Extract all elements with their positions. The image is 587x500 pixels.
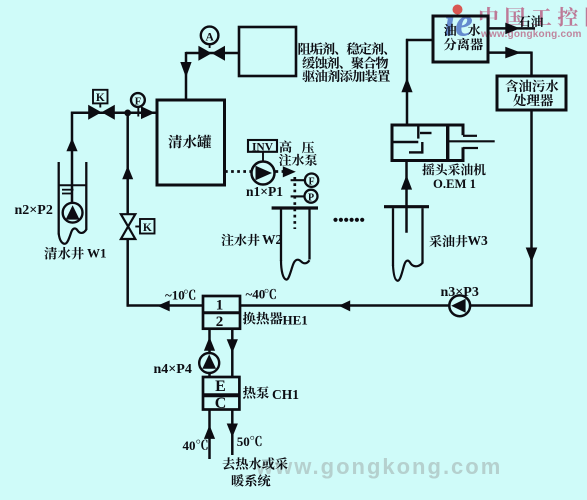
arrow down on CH1 supply	[227, 424, 238, 438]
label 处理器	[513, 94, 553, 107]
label 暖系统	[232, 474, 271, 487]
arrow up on W1 riser	[66, 138, 77, 151]
arrow left toward HE1	[339, 300, 351, 311]
well W1 walls	[58, 162, 60, 235]
pumping unit outer box	[392, 124, 463, 127]
arrow up into HE1	[204, 337, 215, 351]
wire dotted injection drop into W2	[293, 177, 296, 229]
pumping unit internals	[392, 141, 418, 143]
wire separator second outlet	[488, 51, 532, 54]
wire W3 pump rod	[405, 161, 408, 233]
gauge F2	[291, 179, 305, 181]
pump P4	[199, 353, 219, 373]
pump P1	[252, 162, 275, 185]
box 油水分离器	[433, 16, 488, 62]
arrow up into CH1 return	[204, 425, 215, 439]
pumping unit rod fork	[463, 135, 477, 137]
wire HE1-CH1 left leg	[208, 329, 211, 377]
wire well-W1 riser	[71, 112, 74, 203]
arrow down from HE1	[227, 339, 238, 353]
box 含油污水处理器	[497, 76, 566, 110]
wire CH1 return leg	[208, 410, 211, 460]
box HE1	[203, 296, 240, 329]
well W2 walls	[280, 210, 282, 262]
arrow down on dosing drop	[180, 62, 191, 78]
arrow right after pump P1	[283, 166, 296, 177]
label 石油	[518, 15, 543, 27]
well W1 torn bottom	[59, 228, 87, 243]
svg-text:www.gongkong.com: www.gongkong.com	[255, 454, 502, 479]
svg-text:1: 1	[216, 298, 224, 314]
svg-text:2: 2	[216, 314, 224, 330]
instrument box K1	[93, 90, 108, 104]
pumping unit divider	[446, 124, 449, 163]
svg-text:50: 50	[237, 434, 250, 449]
arrow up to separator	[401, 78, 412, 93]
svg-text:n4×P4: n4×P4	[154, 362, 192, 377]
svg-text:~40: ~40	[246, 287, 266, 302]
wire dosing drop into tank	[185, 52, 188, 100]
label 换热器 HE1	[243, 312, 283, 325]
wire HE1-CH1 right leg	[231, 329, 234, 377]
label 注水井 W2	[221, 234, 259, 246]
arrow right second outlet	[505, 47, 521, 59]
svg-text:W3: W3	[468, 233, 489, 248]
label 采油井 W3	[429, 235, 467, 247]
svg-text:P: P	[308, 193, 314, 204]
svg-text:W1: W1	[87, 245, 107, 260]
label additive line1	[298, 42, 387, 54]
label 清水井 W1	[44, 247, 84, 260]
arrow left into bypass corner	[157, 300, 170, 311]
svg-text:W2: W2	[262, 232, 283, 247]
svg-text:F: F	[309, 177, 315, 188]
node junction dot	[124, 110, 131, 117]
svg-text:n1×P1: n1×P1	[246, 184, 283, 199]
pump P2	[63, 203, 83, 223]
well W1 water level	[59, 184, 87, 186]
arrow up on W3 rod	[401, 175, 412, 190]
node ellipsis dots	[333, 218, 337, 222]
label 含油污水	[505, 80, 558, 93]
svg-text:E: E	[215, 378, 226, 395]
svg-text:F: F	[135, 96, 141, 107]
well W3 walls	[392, 208, 394, 266]
wire INV stem	[262, 152, 264, 162]
wire CH1 supply leg	[231, 410, 234, 456]
label 去热水或采	[223, 457, 288, 469]
valve K2 (bypass)	[121, 214, 135, 226]
well W3 torn bottom	[393, 261, 423, 281]
wire bypass vertical lower	[126, 239, 129, 307]
label 分离器	[444, 38, 483, 51]
label 摇头采油机	[422, 163, 485, 175]
gauge A	[201, 27, 219, 45]
svg-text:CH1: CH1	[272, 387, 299, 402]
arrow down on oily-water drop	[526, 248, 538, 263]
svg-text:n2×P2: n2×P2	[15, 203, 53, 218]
wire petroleum outlet	[488, 27, 535, 30]
svg-text:O.EM 1: O.EM 1	[433, 177, 476, 191]
svg-text:C: C	[215, 395, 227, 412]
wire oily-water drop	[530, 109, 533, 307]
wire dosing horizontal	[186, 52, 239, 55]
well W3 flange	[384, 205, 429, 208]
arrow up on bypass	[122, 166, 133, 179]
wire bottom loop right segment	[240, 304, 533, 307]
tank 清水罐	[157, 100, 225, 185]
box CH1	[203, 377, 239, 410]
wire separator riser vertical	[406, 39, 409, 125]
svg-text:INV: INV	[252, 141, 274, 153]
box INV	[248, 140, 277, 152]
svg-text:40: 40	[183, 438, 196, 453]
svg-text:n3×P3: n3×P3	[441, 285, 479, 300]
label 热泵 CH1	[243, 386, 269, 399]
label additive line2	[302, 56, 388, 69]
wire separator riser horizontal	[406, 39, 433, 42]
wire top feed header	[71, 111, 156, 114]
wire dotted tank to pump P1	[225, 170, 251, 173]
wire second outlet drop	[530, 52, 533, 77]
arrow right petroleum	[505, 23, 520, 35]
svg-text:HE1: HE1	[283, 313, 308, 328]
svg-text:A: A	[205, 31, 214, 43]
label additive line3	[302, 70, 390, 82]
wire bottom loop left segment	[127, 304, 203, 307]
gauge P2g	[291, 195, 305, 197]
well W2 flange	[272, 206, 318, 209]
svg-text:K: K	[143, 222, 152, 234]
valve A (dosing)	[198, 46, 211, 61]
instrument box K2	[135, 226, 140, 228]
wire dotted pump P1 outlet	[276, 170, 285, 173]
label 油水	[444, 24, 457, 36]
label 高压	[280, 141, 292, 153]
svg-text:~10: ~10	[165, 287, 185, 302]
wire bypass vertical upper	[126, 113, 129, 215]
well W2 torn bottom	[281, 260, 310, 280]
label 注水泵	[279, 154, 317, 166]
pump P3	[449, 295, 470, 316]
svg-text:K: K	[96, 92, 105, 104]
valve K1 (feed)	[88, 105, 101, 120]
label 清水罐	[168, 135, 211, 149]
svg-text:www.gongkong.com: www.gongkong.com	[480, 29, 582, 40]
watermark 中国工控网	[480, 7, 587, 27]
box additive dosing device	[239, 27, 296, 76]
gauge F1	[131, 93, 145, 107]
arrow into tank	[141, 106, 155, 119]
